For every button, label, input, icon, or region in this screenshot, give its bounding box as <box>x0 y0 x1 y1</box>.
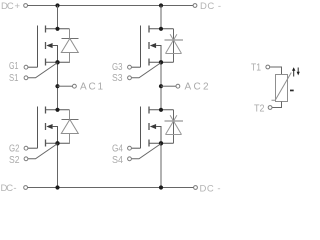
Q3 body stub <box>156 46 161 63</box>
Q4 gate bar <box>140 107 142 149</box>
terminal AC2 circle <box>176 84 180 88</box>
svg-text:T2: T2 <box>254 102 265 114</box>
svg-text:DC -: DC - <box>200 184 221 195</box>
wire AC2 stub <box>161 85 176 87</box>
Q2 gate bar <box>37 107 39 149</box>
thermistor mark minus dash <box>290 90 294 92</box>
terminal S3 circle <box>128 76 132 80</box>
Q1 channel bar source <box>45 59 47 66</box>
junction dot bottom rail right column <box>159 185 163 189</box>
Q4 gate lead to G4 <box>131 147 140 149</box>
Q1 gate bar <box>37 26 39 68</box>
Q4 channel bar drain <box>148 107 150 114</box>
terminal G3 circle <box>128 65 132 69</box>
D1 cathode leg <box>69 29 71 39</box>
terminal DC- bottom-left <box>24 186 28 190</box>
Q1 body stub <box>53 46 58 63</box>
Q1 body arrow <box>46 43 52 48</box>
Q4 body arrow <box>150 124 156 129</box>
Q3 gate bar <box>140 26 142 68</box>
D3 center vertical <box>173 29 175 63</box>
thermistor R1 body <box>276 75 288 102</box>
Q1 source node dot <box>55 60 59 64</box>
Q2 channel bar source <box>45 140 47 147</box>
Q1 drain stub <box>46 28 70 30</box>
D4 center vertical <box>173 110 175 144</box>
wire right column: Q4 source to bottom rail <box>160 143 162 187</box>
svg-text:T1: T1 <box>251 62 261 74</box>
Q3 gate lead to G3 <box>131 66 140 68</box>
Q2 channel bar body <box>45 123 47 130</box>
Q1 channel bar drain <box>45 26 47 33</box>
wire left column: Q1 source to AC1 to Q2 drain <box>57 62 59 110</box>
svg-text:DC -: DC - <box>1 183 17 194</box>
terminal S4 circle <box>128 157 132 161</box>
Q4 source node dot <box>159 141 163 145</box>
Q4 channel bar body <box>148 123 150 130</box>
transistor Q3 (top-right MOSFET) <box>131 26 173 68</box>
svg-text:DC -: DC - <box>200 1 221 12</box>
svg-text:S1: S1 <box>9 72 19 84</box>
wire top rail <box>28 5 193 7</box>
terminal G2 circle <box>24 146 28 150</box>
Q4 channel bar source <box>148 140 150 147</box>
Q3 drain stub <box>149 28 174 30</box>
terminal T2 circle <box>268 106 272 110</box>
wire T2 lead <box>272 102 282 108</box>
transistor Q4 (bottom-right MOSFET) <box>131 107 173 149</box>
terminal S2 circle <box>24 157 28 161</box>
transistor Q2 (bottom-left MOSFET) <box>28 107 70 149</box>
Q3 drain node dot <box>159 27 163 31</box>
D2 cathode bar <box>62 119 79 121</box>
D1 anode leg <box>69 53 71 63</box>
svg-text:S4: S4 <box>112 154 123 166</box>
Q3 source stub <box>149 61 174 63</box>
Q3 source node dot <box>159 60 163 64</box>
Q3 channel bar drain <box>148 26 150 33</box>
diode D1 (antiparallel, top-left) <box>61 29 78 63</box>
junction dot top rail right column <box>159 3 163 7</box>
D4 cathode bar <box>165 120 184 122</box>
D2 anode leg <box>69 134 71 144</box>
svg-text:AC2: AC2 <box>185 82 209 93</box>
terminal G1 circle <box>24 65 28 69</box>
wire right column: Q3 source to AC2 to Q4 drain <box>160 62 162 110</box>
svg-text:G4: G4 <box>112 143 123 155</box>
terminal DC+ top-left <box>24 4 28 8</box>
thermistor mark down arrow <box>297 68 299 73</box>
D3 cathode bar <box>165 39 184 41</box>
junction dot top rail left column <box>55 3 59 7</box>
thermistor R1 slash <box>272 73 292 101</box>
terminal AC1 circle <box>73 84 77 88</box>
wire S1 lead <box>28 63 58 78</box>
diode D2 (antiparallel, bottom-left) <box>61 110 78 144</box>
Q2 source stub <box>46 142 71 144</box>
Q2 drain node dot <box>55 108 59 112</box>
D4 side crossing right <box>170 115 181 134</box>
node AC1 junction dot <box>55 84 59 88</box>
svg-text:G1: G1 <box>9 60 19 72</box>
svg-text:G3: G3 <box>112 61 123 73</box>
transistor Q1 (top-left MOSFET) <box>28 26 70 68</box>
diode D4 (bottom-right, crossed style) <box>165 110 184 144</box>
Q3 body arrow <box>150 43 156 48</box>
junction dot bottom rail left column <box>55 185 59 189</box>
Q4 drain node dot <box>159 108 163 112</box>
svg-text:AC1: AC1 <box>80 82 103 93</box>
wire AC1 stub <box>58 85 73 87</box>
Q4 drain stub <box>149 109 174 111</box>
terminal DC+ top-right <box>193 4 197 8</box>
Q2 source node dot <box>55 141 59 145</box>
Q2 drain stub <box>46 109 70 111</box>
D3 anode base <box>166 53 182 55</box>
D4 anode base <box>166 134 182 136</box>
terminal G4 circle <box>128 146 132 150</box>
svg-text:S3: S3 <box>112 72 123 84</box>
wire S2 lead <box>28 144 58 159</box>
Q2 gate lead to G2 <box>28 147 38 149</box>
D3 side crossing right <box>170 34 181 53</box>
Q1 source stub <box>46 61 71 63</box>
D1 cathode bar <box>62 38 79 40</box>
D4 side crossing left <box>166 115 177 134</box>
terminal S1 circle <box>24 76 28 80</box>
wire left column: Q2 source to bottom rail <box>57 143 59 187</box>
terminal DC- bottom-right <box>194 186 198 190</box>
thermistor mark up arrow <box>293 70 295 76</box>
wire left column: top rail to Q1 drain <box>57 6 59 29</box>
Q3 channel bar body <box>148 42 150 49</box>
Q1 drain node dot <box>55 27 59 31</box>
node AC2 junction dot <box>159 84 163 88</box>
wire S3 lead <box>131 63 161 78</box>
D2 triangle <box>61 120 78 134</box>
Q4 body stub <box>156 127 161 144</box>
Q3 channel bar source <box>148 59 150 66</box>
Q1 channel bar body <box>45 42 47 49</box>
wire right column: top rail to Q3 drain <box>160 6 162 29</box>
diode D3 (top-right, crossed style) <box>165 29 184 63</box>
Q1 gate lead to G1 <box>28 66 38 68</box>
wire S4 lead <box>131 144 161 159</box>
Q2 body stub <box>53 127 58 144</box>
wire T1 lead <box>270 67 282 75</box>
svg-text:S2: S2 <box>9 154 20 166</box>
D3 side crossing left <box>166 34 177 53</box>
D1 triangle <box>61 39 78 53</box>
D2 cathode leg <box>69 110 71 120</box>
terminal T1 circle <box>266 65 270 69</box>
Q4 source stub <box>149 142 174 144</box>
Q2 body arrow <box>46 124 52 129</box>
Q2 channel bar drain <box>45 107 47 114</box>
svg-text:G2: G2 <box>9 143 20 155</box>
wire bottom rail <box>28 187 194 189</box>
svg-text:DC +: DC + <box>1 1 20 12</box>
